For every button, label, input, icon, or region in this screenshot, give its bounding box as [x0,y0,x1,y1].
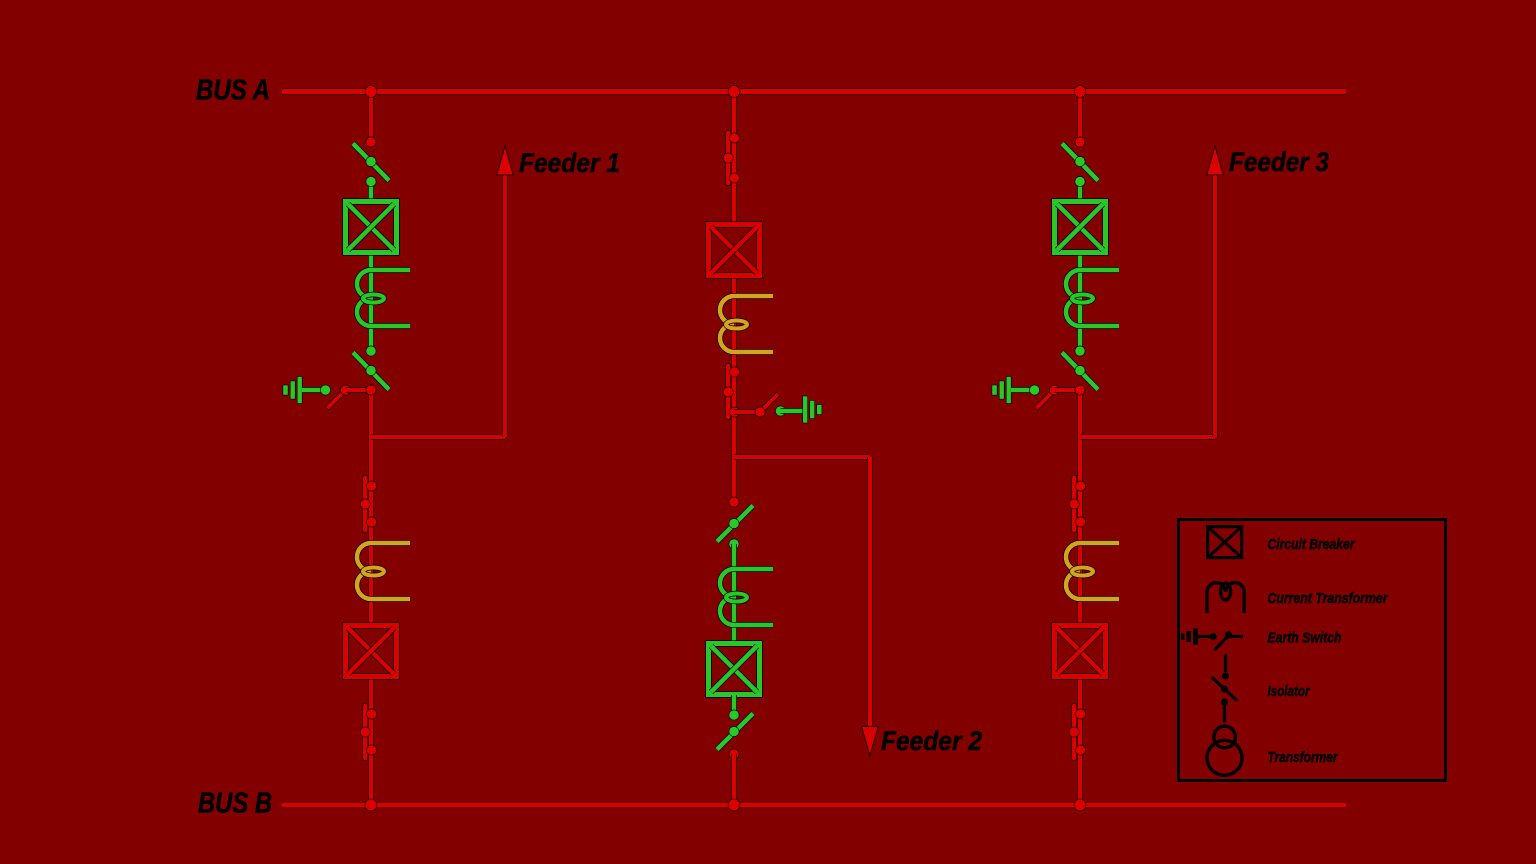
svg-text:BUS B: BUS B [198,788,272,820]
svg-text:Transformer: Transformer [1268,749,1339,766]
svg-text:Feeder 3: Feeder 3 [1229,147,1329,177]
svg-text:BUS A: BUS A [196,75,270,107]
svg-text:Current Transformer: Current Transformer [1268,590,1389,607]
svg-text:Earth Switch: Earth Switch [1268,630,1342,647]
svg-text:Feeder 1: Feeder 1 [519,148,620,178]
svg-text:Feeder 2: Feeder 2 [881,726,982,756]
svg-text:Circuit Breaker: Circuit Breaker [1268,536,1356,553]
svg-text:Isolator: Isolator [1268,683,1311,700]
